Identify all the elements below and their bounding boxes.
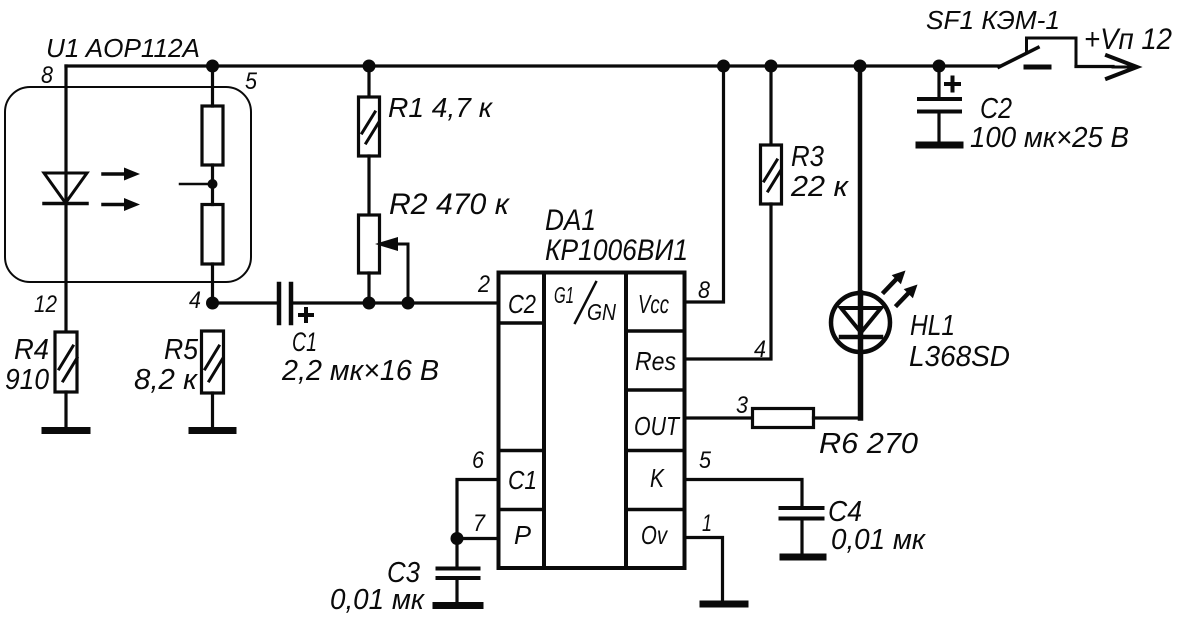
IC left cell divider C1/P xyxy=(499,508,545,512)
resistor R1 xyxy=(359,66,380,156)
switch SF1 blade xyxy=(999,48,1038,68)
capacitor C2 xyxy=(919,66,960,141)
ground of R5 xyxy=(192,427,233,434)
ground of C3 xyxy=(436,602,480,609)
junction dot wiper xyxy=(402,297,415,310)
ground of C2 xyxy=(919,142,960,149)
svg-text:1: 1 xyxy=(702,510,712,537)
IC right cell divider Res/OUT xyxy=(626,388,685,392)
wire switch output xyxy=(1076,65,1113,68)
svg-text:0,01 мк: 0,01 мк xyxy=(330,584,425,616)
IC left cell C1 top xyxy=(499,449,545,453)
svg-text:SF1 КЭМ-1: SF1 КЭМ-1 xyxy=(926,5,1060,35)
IC DA1 KP1006VI1 outline xyxy=(499,273,685,569)
svg-text:8,2 к: 8,2 к xyxy=(134,364,198,396)
wire C1 to IC pin2 xyxy=(293,301,496,304)
wire node A: pin4 to C1 xyxy=(213,301,278,304)
optocoupler U1 body xyxy=(5,87,251,282)
capacitor C3 xyxy=(438,539,479,602)
resistor R6 xyxy=(753,409,814,428)
svg-text:R3: R3 xyxy=(791,141,824,173)
junction dot rail HL1 xyxy=(854,60,867,73)
svg-text:K: K xyxy=(650,463,665,493)
junction dot rail pin8 xyxy=(717,60,730,73)
capacitor C4 xyxy=(781,508,823,553)
svg-text:DA1: DA1 xyxy=(545,204,596,237)
photoresistor lower half of U1 xyxy=(202,205,223,265)
svg-text:C2: C2 xyxy=(980,93,1012,125)
svg-text:G1: G1 xyxy=(554,282,574,308)
svg-text:R5: R5 xyxy=(164,334,199,366)
svg-text:C1: C1 xyxy=(292,327,317,357)
resistor R3 xyxy=(685,66,782,359)
svg-text:GN: GN xyxy=(587,299,616,325)
photoresistor upper half of U1 xyxy=(202,106,223,165)
svg-text:100 мк×25 В: 100 мк×25 В xyxy=(970,122,1129,154)
arrow +Vп 12 xyxy=(1107,56,1137,79)
LED HL1 xyxy=(831,66,890,418)
LED of optocoupler xyxy=(44,173,87,204)
wire R1 to R2 xyxy=(367,156,370,215)
wire R5 to ground xyxy=(211,393,214,427)
wire pin6 pin7 link xyxy=(457,480,499,539)
svg-text:12: 12 xyxy=(34,291,57,318)
ground of C4 xyxy=(783,554,823,561)
svg-text:910: 910 xyxy=(5,364,49,396)
switch SF1 fixed contact xyxy=(1026,65,1049,70)
ground of R4 xyxy=(45,427,87,434)
wire R2 to node xyxy=(367,273,370,303)
svg-text:22 к: 22 к xyxy=(790,171,849,203)
svg-text:U1 AOP112A: U1 AOP112A xyxy=(46,33,200,63)
svg-text:7: 7 xyxy=(473,510,486,537)
svg-text:КР1006ВИ1: КР1006ВИ1 xyxy=(545,234,688,267)
junction dot rail R3 xyxy=(765,60,778,73)
IC right cell divider OUT/K xyxy=(626,449,685,453)
junction tap dot xyxy=(208,179,218,189)
svg-text:OUT: OUT xyxy=(634,411,681,441)
junction dot pin4 xyxy=(206,297,219,310)
svg-text:C1: C1 xyxy=(508,465,537,495)
wire R6 to HL1 xyxy=(814,416,861,419)
svg-text:8: 8 xyxy=(41,62,54,89)
svg-text:6: 6 xyxy=(472,447,485,474)
svg-text:C2: C2 xyxy=(508,289,536,319)
wire photoresistor center tap xyxy=(180,183,213,186)
svg-text:Vcc: Vcc xyxy=(638,289,669,319)
svg-text:Res: Res xyxy=(635,346,676,376)
wire pin5 riser xyxy=(211,66,214,303)
junction dot rail at R1 xyxy=(363,60,376,73)
switch SF1 envelope xyxy=(1027,38,1077,67)
resistor R4 xyxy=(55,332,77,392)
cell label G1/GN xyxy=(554,282,616,325)
IC right cell divider K/Ov xyxy=(626,508,685,512)
IC inner column lines xyxy=(544,273,626,569)
resistor R5 xyxy=(202,331,224,393)
svg-text:2: 2 xyxy=(477,271,490,298)
IC left cell divider C2 xyxy=(499,321,545,325)
junction dot rail at pin5 xyxy=(206,60,219,73)
ground of pin1 xyxy=(703,601,745,608)
svg-text:L368SD: L368SD xyxy=(909,341,1010,373)
junction dot R2 bottom xyxy=(363,297,376,310)
IC right cell divider Vcc/Res xyxy=(626,329,685,333)
wire K pin5 to C4 xyxy=(685,480,803,507)
HL1 emission arrows xyxy=(884,271,918,306)
svg-text:8: 8 xyxy=(698,277,711,304)
wire Vcc pin8 riser xyxy=(685,66,724,302)
wire OUT pin3 to R6 xyxy=(685,416,753,419)
svg-text:HL1: HL1 xyxy=(910,310,955,342)
svg-text:Ov: Ov xyxy=(641,520,669,550)
svg-text:R2 470 к: R2 470 к xyxy=(389,188,511,221)
wire top supply rail xyxy=(66,64,999,67)
svg-text:+Vп 12: +Vп 12 xyxy=(1084,23,1172,56)
potentiometer R2 xyxy=(359,215,409,303)
capacitor C1 xyxy=(279,284,312,323)
svg-text:R1 4,7 к: R1 4,7 к xyxy=(388,92,494,123)
light arrows inside optocoupler xyxy=(103,168,140,212)
svg-text:0,01 мк: 0,01 мк xyxy=(831,524,926,556)
wire Ov pin1 to ground xyxy=(685,538,723,601)
wire R4 to ground xyxy=(64,392,67,427)
junction dot rail C2 xyxy=(933,60,946,73)
svg-text:4: 4 xyxy=(189,287,201,314)
junction dot pin7 xyxy=(451,532,464,545)
svg-text:2,2 мк×16 В: 2,2 мк×16 В xyxy=(281,355,439,387)
svg-text:5: 5 xyxy=(245,68,258,95)
svg-text:5: 5 xyxy=(699,447,712,474)
svg-text:R4: R4 xyxy=(14,334,49,366)
svg-text:3: 3 xyxy=(736,392,749,419)
wire LED riser pin8 to R4 xyxy=(64,66,67,332)
svg-text:R6 270: R6 270 xyxy=(819,428,918,460)
svg-text:P: P xyxy=(514,520,532,550)
